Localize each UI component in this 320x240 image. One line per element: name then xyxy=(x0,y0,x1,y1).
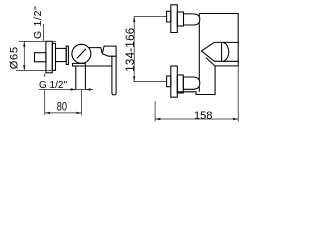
knob pentagon xyxy=(202,42,239,61)
bottom union flange xyxy=(171,66,178,97)
top union nut xyxy=(167,11,171,22)
158 ext left xyxy=(154,101,156,122)
under ring xyxy=(73,63,86,66)
knob D arc xyxy=(223,42,228,61)
svg-text:158: 158 xyxy=(194,110,212,122)
158 dim line xyxy=(155,118,238,120)
ext top xyxy=(134,16,167,18)
80 dim ext right xyxy=(81,90,83,116)
158 arrows xyxy=(155,118,160,120)
neck xyxy=(56,48,67,61)
knob inner vertical xyxy=(221,42,223,61)
lever diagonal xyxy=(206,58,215,66)
80 dim line xyxy=(45,112,82,114)
svg-text:134-166: 134-166 xyxy=(125,27,137,71)
svg-text:Ø65: Ø65 xyxy=(9,46,21,69)
knob slash xyxy=(77,49,86,59)
flange escutcheon xyxy=(46,41,52,73)
G1/2 stub arrows xyxy=(71,88,76,90)
ring 1 xyxy=(52,43,55,70)
body bottom edge xyxy=(85,65,112,67)
Ø65 dim line xyxy=(23,41,25,70)
body top edge xyxy=(89,46,117,56)
bottom union step xyxy=(177,75,183,93)
top union bell xyxy=(184,14,200,25)
svg-text:80: 80 xyxy=(57,101,67,113)
bottom union nut xyxy=(167,76,171,87)
134-166 arrows xyxy=(133,17,135,22)
knob circle xyxy=(72,44,91,63)
handle shaft xyxy=(112,56,116,95)
top union flange xyxy=(171,5,178,33)
top union step xyxy=(177,12,183,26)
80 arrows xyxy=(45,112,50,114)
80 dim ext left xyxy=(44,90,46,116)
Ø65 arrows xyxy=(23,41,25,46)
G 1/2" top leader xyxy=(42,24,44,41)
ext line bottom of Ø65 xyxy=(16,70,56,72)
134-166 dim line xyxy=(133,17,135,82)
dimensions, right drawing xyxy=(134,17,239,122)
svg-text:G 1/2": G 1/2" xyxy=(32,5,44,39)
ring 2 xyxy=(66,46,68,64)
ext line top (under G 1/2" label) xyxy=(19,40,56,42)
G 1/2" dim line bottom xyxy=(39,89,94,91)
wall inlet nipple xyxy=(35,53,46,62)
outlet stub xyxy=(75,66,77,90)
body left edge xyxy=(198,14,200,92)
bottom union bell xyxy=(183,77,200,89)
ext bottom xyxy=(134,81,167,83)
dimensions, left drawing xyxy=(16,24,93,115)
80 dim ext left upper stub xyxy=(44,74,46,78)
body outline xyxy=(177,14,238,95)
158 ext right xyxy=(237,66,239,122)
svg-text:G 1/2": G 1/2" xyxy=(39,80,67,91)
head underside xyxy=(102,54,108,56)
